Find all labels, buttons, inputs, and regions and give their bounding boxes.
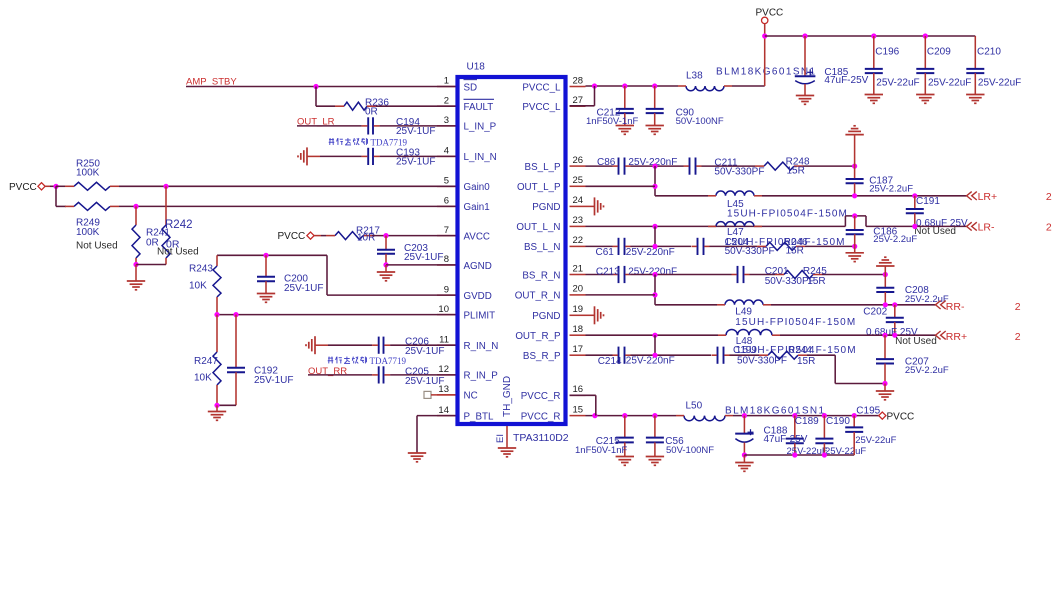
wire C192 bottom to R247 bottom: [217, 404, 236, 406]
svg-text:25V-22uF: 25V-22uF: [825, 446, 866, 457]
svg-text:LR+: LR+: [978, 191, 998, 203]
svg-text:4: 4: [444, 146, 449, 157]
capacitor C213 bootstrap: [618, 266, 620, 283]
svg-text:BS_R_P: BS_R_P: [523, 351, 561, 362]
node C188 top: [742, 413, 747, 418]
pin 26 BS_L_P stub+number+name: [570, 165, 586, 167]
node R247/C192 bottom junction: [214, 403, 219, 408]
svg-text:OUT_R_P: OUT_R_P: [515, 331, 561, 342]
wire OUT_L_P jog to L45: [655, 195, 708, 197]
svg-text:AVCC: AVCC: [464, 231, 491, 242]
svg-text:AMP_STBY: AMP_STBY: [186, 76, 237, 87]
svg-text:23: 23: [573, 215, 584, 226]
svg-text:Not Used: Not Used: [157, 247, 199, 258]
pin 22 BS_L_N stub+number+name: [570, 245, 586, 247]
ground below C196: [865, 94, 883, 96]
wire pin 25 OUT_L_P: [586, 185, 656, 187]
resistor R249 100K: [74, 202, 110, 210]
pin 25 OUT_L_P stub+number+name: [570, 185, 586, 187]
pin 16 PVCC_R stub+number+name: [570, 394, 586, 396]
pin 18 OUT_R_P stub+number+name: [570, 334, 586, 336]
ground below C203: [385, 265, 387, 272]
wire BS bridge down to OUT_R_N and jog: [654, 275, 656, 305]
node C212 top: [622, 83, 627, 88]
capacitor C185 47uF-25V (electrolytic): [804, 36, 806, 76]
svg-text:0R: 0R: [365, 106, 378, 117]
node AVCC / C203 junction: [383, 233, 388, 238]
wire pin 28 PVCC_L rail: [586, 85, 679, 87]
node C207 top junction: [882, 333, 887, 338]
node C186 bottom junction: [852, 244, 857, 249]
pin 3 L_IN_P stub+number+name: [437, 125, 456, 127]
svg-text:NC: NC: [464, 391, 478, 402]
node PVCC rail left junction: [762, 33, 767, 38]
pin 5 Gain0 stub+number+name: [437, 185, 456, 187]
wire C206 to pin 11: [390, 344, 455, 346]
svg-text:25V-22uF: 25V-22uF: [876, 77, 919, 88]
pin 27 PVCC_L stub+number+name: [570, 105, 586, 107]
capacitor C215: [624, 416, 626, 438]
svg-text:100K: 100K: [76, 168, 100, 179]
wire AMP_STBY to pin 1: [186, 86, 456, 88]
node R241 top junction: [133, 204, 138, 209]
svg-text:25V-22uF: 25V-22uF: [978, 77, 1021, 88]
ground (rotated) at L_IN_N input: [306, 147, 308, 165]
node junction AMP_STBY / R236: [313, 84, 318, 89]
capacitor C211 snubber: [689, 158, 691, 175]
wire R250 to pin 5 Gain0: [119, 185, 456, 187]
wire L50 to C188 node: [733, 415, 879, 417]
svg-text:LR-: LR-: [978, 221, 995, 233]
wire down to R236 row: [315, 87, 317, 107]
capacitor C203: [385, 236, 387, 250]
svg-text:R243: R243: [189, 264, 213, 275]
capacitor C192: [235, 315, 237, 368]
wire ground to C193: [307, 155, 320, 157]
svg-text:EI: EI: [495, 434, 506, 443]
svg-text:BS_L_P: BS_L_P: [525, 162, 561, 173]
wire R217 to pin 7 AVCC: [372, 235, 456, 237]
resistor R248 15R: [764, 162, 794, 170]
svg-text:PLIMIT: PLIMIT: [464, 310, 496, 321]
pin 23 OUT_L_N stub+number+name: [570, 225, 586, 227]
svg-text:C190: C190: [826, 416, 850, 427]
svg-text:19: 19: [573, 304, 584, 315]
wire riser up to PVCC rail: [764, 36, 766, 86]
node C215 top: [622, 413, 627, 418]
svg-text:C61: C61: [596, 247, 615, 258]
pin 7 AVCC stub+number+name: [437, 235, 456, 237]
resistor R247 10K (vertical): [216, 315, 218, 352]
svg-text:Gain1: Gain1: [464, 202, 490, 213]
svg-text:15R: 15R: [786, 245, 804, 256]
wire C61 to snubber: [631, 245, 692, 247]
ground below C215: [616, 456, 634, 458]
svg-text:SD: SD: [464, 82, 478, 93]
node C202 top junction: [892, 302, 897, 307]
ground above C208: [884, 256, 886, 258]
svg-text:R242: R242: [165, 219, 193, 231]
wire C193 to pin 4: [380, 155, 456, 157]
capacitor snubber (pin17 row): [717, 347, 719, 364]
wire PVCC decoupling rail: [765, 35, 976, 37]
svg-text:25V-1UF: 25V-1UF: [284, 283, 323, 294]
ground below P_BTL: [408, 452, 426, 454]
svg-text:C202: C202: [863, 306, 887, 317]
wire BS bridge down to OUT_L_P and jog: [654, 166, 656, 196]
svg-text:L50: L50: [686, 400, 703, 411]
svg-text:C86: C86: [597, 157, 616, 168]
op-amp U18 TPA3110D2 IC body: [458, 77, 566, 424]
pin 4 L_IN_N stub+number+name: [437, 155, 456, 157]
svg-text:25V-22uF: 25V-22uF: [928, 77, 971, 88]
svg-text:C209: C209: [927, 46, 951, 57]
power port PVCC (bottom right): [879, 412, 886, 419]
wire C214 to snubber: [631, 354, 712, 356]
svg-text:C214: C214: [598, 356, 622, 367]
chevron port LR+: [967, 192, 972, 200]
svg-text:3: 3: [444, 115, 449, 126]
ground below C209: [916, 94, 934, 96]
capacitor C201 snubber: [737, 266, 739, 283]
annotation route-parallel TDA7719 (lower): [328, 357, 333, 359]
svg-text:C189: C189: [795, 416, 819, 427]
svg-text:2: 2: [444, 95, 449, 106]
ground below C210: [966, 94, 984, 96]
pin 10 PLIMIT stub+number+name: [437, 314, 456, 316]
svg-text:15R: 15R: [787, 166, 805, 177]
resistor R245 15R: [784, 271, 813, 279]
node pin16 feed junction: [592, 413, 597, 418]
capacitor C61 bootstrap: [618, 238, 620, 255]
wire pin 17 BS_R_P to C214: [586, 354, 613, 356]
svg-text:25V-1UF: 25V-1UF: [405, 376, 444, 387]
node BS_L_P junction: [652, 164, 657, 169]
pin 17 BS_R_P stub+number+name: [570, 354, 586, 356]
node C186 top junction: [852, 213, 857, 218]
wire junction to pin 8 AGND: [386, 264, 456, 266]
svg-text:15: 15: [573, 404, 584, 415]
wire loop to pin 27: [594, 86, 596, 106]
node R248/C187/ground junction: [852, 164, 857, 169]
capacitor C207: [884, 335, 886, 359]
pin 13 NC stub+number+name: [437, 394, 456, 396]
svg-text:8: 8: [444, 254, 449, 265]
wire pin 23 OUT_L_N: [586, 225, 846, 227]
wire OUT_L_N jog over C186: [844, 216, 846, 227]
ground (rotated) at pin 24 PGND: [586, 205, 595, 207]
ground (rotated) at pin 19 PGND: [586, 314, 595, 316]
node C202 bottom junction: [892, 333, 897, 338]
node BS_L_N junction: [652, 244, 657, 249]
node C190 bottom: [822, 452, 827, 457]
wire R244 to C207 bottom node: [807, 354, 835, 356]
svg-text:21: 21: [573, 263, 584, 274]
svg-text:OUT_R_N: OUT_R_N: [515, 291, 561, 302]
node C188 bottom junction: [742, 452, 747, 457]
svg-text:L_IN_N: L_IN_N: [464, 152, 497, 163]
svg-text:25V-2.2uF: 25V-2.2uF: [869, 183, 913, 194]
svg-text:2: 2: [1046, 191, 1052, 203]
svg-text:2: 2: [1046, 221, 1052, 233]
node R245/C208/ground junction: [883, 272, 888, 277]
capacitor snubber (pin22 row): [697, 238, 699, 255]
node C189 top: [792, 413, 797, 418]
inductor L49 15UH: [725, 300, 763, 305]
svg-text:C191: C191: [916, 196, 940, 207]
resistor R244 15R: [768, 351, 798, 359]
svg-text:PGND: PGND: [532, 202, 560, 213]
svg-text:7: 7: [444, 225, 449, 236]
svg-text:R_IN_N: R_IN_N: [464, 341, 499, 352]
wire ground to C206: [315, 344, 328, 346]
wire BS bridge pin23 to pin22 row: [654, 226, 656, 246]
svg-text:15R: 15R: [797, 356, 815, 367]
svg-text:2: 2: [1015, 301, 1021, 313]
wire loop to pin 16: [595, 395, 597, 415]
svg-text:50V-100NF: 50V-100NF: [676, 116, 724, 127]
pin 24 PGND stub+number+name: [570, 205, 586, 207]
capacitor C191 (not used): [914, 196, 916, 209]
wire C205 to pin 12: [390, 374, 455, 376]
node C207 bottom junction: [882, 381, 887, 386]
wire L45 to LR+ port: [762, 195, 967, 197]
svg-text:RR-: RR-: [946, 301, 965, 313]
svg-text:24: 24: [573, 195, 584, 206]
svg-text:10: 10: [438, 304, 449, 315]
wire R246 to C186 ground node: [805, 245, 855, 247]
svg-text:BS_R_N: BS_R_N: [522, 270, 560, 281]
svg-text:C213: C213: [596, 266, 620, 277]
svg-text:PVCC_L: PVCC_L: [522, 82, 561, 93]
node C190 top: [822, 413, 827, 418]
capacitor C208: [884, 275, 886, 288]
wire R245 to C208 node: [822, 274, 885, 276]
pin 21 BS_R_N stub+number+name: [570, 274, 586, 276]
node C185 top: [802, 33, 807, 38]
capacitor C193: [367, 148, 369, 165]
svg-text:L38: L38: [686, 70, 703, 81]
node C90 top: [652, 83, 657, 88]
node BS_R_P junction: [652, 353, 657, 358]
ground below C207: [884, 384, 886, 392]
svg-text:10R: 10R: [357, 233, 375, 244]
node C203 bottom / AGND junction: [383, 262, 388, 267]
pin 12 R_IN_P stub+number+name: [437, 374, 456, 376]
pin 19 PGND stub+number+name: [570, 314, 586, 316]
wire OUT_RR to C205: [308, 374, 372, 376]
wire to R244: [730, 354, 760, 356]
pin 14 P_BTL stub+number+name: [437, 415, 456, 417]
pin 20 OUT_R_N stub+number+name: [570, 294, 586, 296]
inductor L47 15UH: [716, 222, 754, 227]
svg-text:GVDD: GVDD: [464, 291, 492, 302]
svg-text:12: 12: [438, 364, 449, 375]
svg-text:25V-2.2uF: 25V-2.2uF: [905, 365, 949, 376]
wire to R236: [316, 105, 335, 107]
svg-text:1: 1: [444, 76, 449, 87]
svg-text:26: 26: [573, 155, 584, 166]
pin 15 PVCC_R stub+number+name: [570, 415, 586, 417]
svg-text:15R: 15R: [807, 276, 825, 287]
annotation route-parallel TDA7719 (upper): [329, 139, 334, 141]
node R241/R242 bottom junction: [133, 262, 138, 267]
svg-text:50V-330PF: 50V-330PF: [725, 246, 775, 257]
resistor R242 0R (vertical): [165, 186, 167, 225]
svg-text:25V-220nF: 25V-220nF: [626, 356, 675, 367]
svg-text:22: 22: [573, 235, 584, 246]
wire L38 to PVCC riser: [732, 85, 765, 87]
pin 6 Gain1 stub+number+name: [437, 205, 456, 207]
svg-text:9: 9: [444, 284, 449, 295]
svg-text:18: 18: [573, 324, 584, 335]
ground below C212: [616, 125, 634, 127]
node C196 top: [871, 33, 876, 38]
capacitor C86 bootstrap: [618, 158, 620, 175]
svg-text:L_IN_P: L_IN_P: [464, 122, 497, 133]
node C195 top: [852, 413, 857, 418]
ground below TH_GND: [498, 447, 516, 449]
ground below C200: [257, 293, 275, 295]
svg-text:25V-1UF: 25V-1UF: [254, 375, 293, 386]
wire R248 to C187 node: [803, 165, 855, 167]
node OUT_L_P pin 25 junction: [652, 184, 657, 189]
capacitor C210 (rail end): [974, 36, 976, 69]
node C189 bottom: [792, 452, 797, 457]
wire junction to R250: [56, 185, 65, 187]
svg-text:6: 6: [444, 196, 449, 207]
svg-text:C210: C210: [977, 46, 1001, 57]
svg-text:50V-100NF: 50V-100NF: [666, 445, 714, 456]
ground below R241: [135, 265, 137, 282]
wire R241 to R242 bottom: [136, 264, 166, 266]
resistor R241 0R (vertical): [135, 206, 137, 225]
wire OUT_R_N jog to L49: [655, 304, 717, 306]
node C209 top: [923, 33, 928, 38]
capacitor C188 47uF (electrolytic): [743, 416, 745, 434]
pin 8 AGND stub+number+name: [437, 264, 456, 266]
wire NC square to pin 13: [431, 394, 456, 396]
pin 1 SD stub+number+name: [437, 86, 456, 88]
ground below C90: [646, 125, 664, 127]
svg-text:27: 27: [573, 95, 584, 106]
node OUT_R_N pin 20 junction: [652, 292, 657, 297]
svg-text:PVCC: PVCC: [887, 412, 915, 423]
ground above C187: [853, 125, 855, 127]
svg-text:RR+: RR+: [946, 331, 967, 343]
ground below C56: [646, 456, 664, 458]
node C208 bottom junction: [883, 302, 888, 307]
wire R249 to pin 6 Gain1: [119, 205, 456, 207]
wire to R246: [710, 245, 758, 247]
svg-text:25V-1UF: 25V-1UF: [405, 346, 444, 357]
wire TH_GND pad to ground: [506, 426, 508, 448]
ground (rotated) at R_IN_N input: [314, 336, 316, 354]
svg-text:C195: C195: [856, 406, 880, 417]
node C56 top: [652, 413, 657, 418]
node BS_R_N junction: [652, 272, 657, 277]
svg-text:25V-22uF: 25V-22uF: [855, 435, 896, 446]
svg-text:14: 14: [438, 405, 449, 416]
svg-text:PGND: PGND: [532, 311, 560, 322]
svg-text:TDA7719: TDA7719: [370, 356, 407, 366]
svg-text:28: 28: [573, 75, 584, 86]
svg-text:PVCC_L: PVCC_L: [522, 102, 561, 113]
svg-text:BLM18KG601SN1: BLM18KG601SN1: [725, 405, 825, 416]
wire OUT_LR to C194: [297, 125, 362, 127]
pin 9 GVDD stub+number+name: [437, 294, 456, 296]
svg-text:1nF50V-1nF: 1nF50V-1nF: [575, 445, 627, 456]
svg-text:PVCC: PVCC: [756, 7, 784, 18]
svg-text:20: 20: [573, 284, 584, 295]
capacitor C187: [854, 166, 856, 179]
svg-text:16: 16: [573, 384, 584, 395]
capacitor C212: [624, 86, 626, 109]
svg-text:Not Used: Not Used: [76, 241, 118, 252]
node C191 bottom junction: [912, 224, 917, 229]
inductor L45 15UH: [716, 191, 754, 196]
node C187 bottom junction: [852, 193, 857, 198]
svg-text:47uF-25V: 47uF-25V: [824, 75, 868, 86]
resistor R217 10R: [335, 232, 363, 240]
capacitor C214 bootstrap: [618, 347, 620, 364]
inductor L48 15UH: [726, 329, 772, 335]
wire C211 to R248: [702, 165, 756, 167]
capacitor C196: [873, 36, 875, 69]
wire BS bridge pin18 to pin17 row: [654, 335, 656, 355]
svg-text:25V-1UF: 25V-1UF: [396, 126, 435, 137]
chevron port LR-: [967, 222, 972, 230]
capacitor C186: [854, 216, 856, 230]
svg-text:100K: 100K: [76, 227, 100, 238]
svg-text:10K: 10K: [189, 281, 207, 292]
svg-text:25V-1UF: 25V-1UF: [404, 252, 443, 263]
capacitor C56: [654, 416, 656, 438]
node R242 top junction: [163, 184, 168, 189]
wire junction down-leg to R249: [56, 205, 66, 207]
node C191 top junction: [912, 193, 917, 198]
capacitor C200: [265, 255, 267, 276]
svg-text:17: 17: [573, 344, 584, 355]
svg-text:R247: R247: [194, 356, 218, 367]
svg-text:TH_GND: TH_GND: [502, 376, 513, 417]
resistor R236: [344, 102, 367, 110]
svg-text:25V-2.2uF: 25V-2.2uF: [873, 234, 917, 245]
wire jog to C191 bottom and LR- port: [866, 225, 967, 227]
capacitor C90: [654, 86, 656, 109]
svg-text:Not Used: Not Used: [914, 226, 956, 237]
node PVCC/R250/R249 junction: [53, 184, 58, 189]
wire down to Gain1 row: [55, 186, 57, 206]
capacitor C189: [794, 416, 796, 439]
resistor R250 100K: [74, 182, 110, 190]
wire L48 to RR+ port: [780, 334, 936, 336]
wire pin 18 OUT_R_P: [586, 334, 719, 336]
svg-text:OUT_L_P: OUT_L_P: [517, 182, 561, 193]
wire pin 26 BS_L_P to C86: [586, 165, 613, 167]
svg-text:50V-330PF: 50V-330PF: [737, 355, 787, 366]
node OUT_L_N BS junction: [652, 224, 657, 229]
svg-text:5: 5: [444, 176, 449, 187]
wire pin 20 OUT_R_N: [586, 294, 656, 296]
ground below C186: [854, 246, 856, 252]
svg-text:15UH-FPI0504F-150M: 15UH-FPI0504F-150M: [727, 209, 848, 220]
svg-text:OUT_L_N: OUT_L_N: [516, 222, 560, 233]
wire pin 21 BS_R_N to C213: [586, 274, 613, 276]
wire PVCC to junction: [50, 185, 56, 187]
node PLIMIT/R243/R247 junction: [214, 312, 219, 317]
capacitor C202 (not used): [894, 305, 896, 318]
